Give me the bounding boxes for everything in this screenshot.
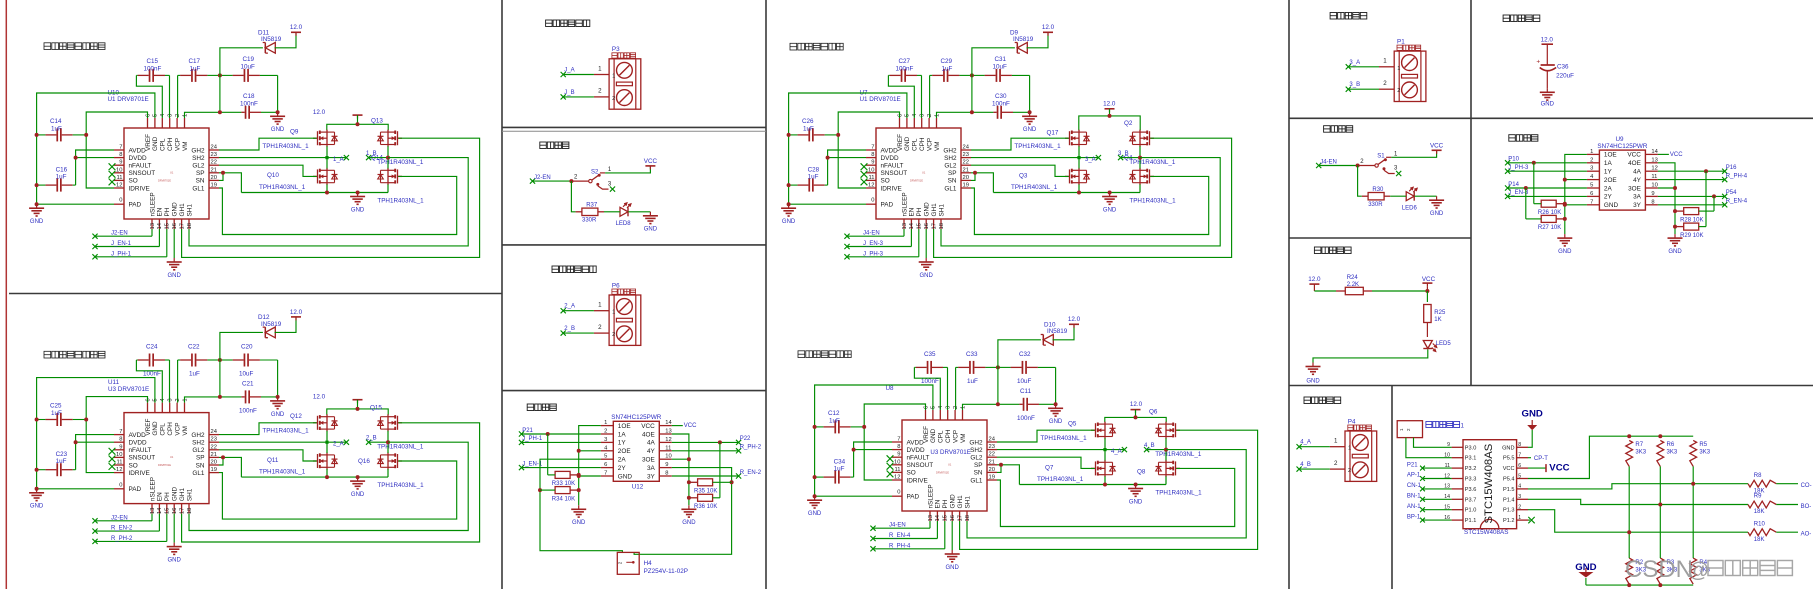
wire P5.4 to pullup rail xyxy=(1528,436,1693,478)
svg-text:2_A: 2_A xyxy=(333,442,344,448)
svg-text:R5: R5 xyxy=(1699,442,1707,448)
wire LED to GND xyxy=(1415,195,1437,197)
svg-text:13: 13 xyxy=(150,223,156,229)
svg-text:CPH: CPH xyxy=(919,137,926,151)
svg-text:U8: U8 xyxy=(886,385,895,392)
svg-text:13: 13 xyxy=(1651,157,1657,163)
junction switch input xyxy=(1356,164,1360,168)
capacitor C36 220uF polarized xyxy=(1536,58,1556,88)
pin 11 SO xyxy=(114,464,124,466)
svg-text:6: 6 xyxy=(145,114,151,117)
pin 23 SH2 xyxy=(961,157,971,159)
wire GND rail left xyxy=(37,378,155,489)
capacitor C26 1uF xyxy=(789,128,839,141)
ground top (VM caps) xyxy=(270,112,285,124)
svg-text:R_EN-2: R_EN-2 xyxy=(111,526,133,532)
wire 2OE to GND vertical xyxy=(579,450,601,452)
wire pin8 GND up to symbol xyxy=(1528,430,1532,447)
svg-text:C21: C21 xyxy=(242,380,254,387)
junction bridge power xyxy=(356,122,360,126)
wire left phase xyxy=(326,146,328,168)
svg-text:20: 20 xyxy=(963,175,969,181)
ground (buffer left) xyxy=(1557,234,1572,246)
pin 3 1Y xyxy=(601,441,614,443)
ground (buffer right) xyxy=(1668,234,1683,246)
pin 12 IDRIVE xyxy=(114,472,124,474)
svg-text:nSLEEP: nSLEEP xyxy=(149,477,156,501)
svg-text:4OE: 4OE xyxy=(1628,160,1641,167)
transistor Q10 (low side left) xyxy=(313,168,338,185)
pin 17 GH1 xyxy=(959,511,961,521)
wire GL2 to low-left gate xyxy=(219,450,317,461)
pin 12 4A xyxy=(1645,170,1658,172)
pin 4 CPL xyxy=(161,118,163,128)
wire GL1 loop to low-right gate xyxy=(971,176,1209,234)
svg-text:GH2: GH2 xyxy=(943,147,957,154)
pin 2 wire net 4_B xyxy=(1330,468,1345,470)
svg-text:GL1: GL1 xyxy=(192,185,205,192)
wire C15 left to CPL pin4 xyxy=(136,360,162,403)
svg-text:STC15W408AS: STC15W408AS xyxy=(1483,443,1495,523)
wire GH1 loop to high-right gate xyxy=(182,423,480,542)
svg-text:R34 10K: R34 10K xyxy=(552,496,575,502)
pin 15 PH xyxy=(918,219,920,229)
svg-text:330R: 330R xyxy=(1368,202,1383,208)
svg-text:SN74HC125PWR: SN74HC125PWR xyxy=(611,414,661,421)
svg-text:C17: C17 xyxy=(189,58,201,65)
svg-text:2: 2 xyxy=(1383,80,1387,87)
svg-text:8: 8 xyxy=(897,444,900,450)
net label VCC xyxy=(1658,153,1669,155)
svg-text:11: 11 xyxy=(116,460,122,466)
wire VM pin1 to rail xyxy=(963,404,1020,410)
svg-text:R7: R7 xyxy=(1635,442,1643,448)
pin 14 VCC xyxy=(1645,153,1658,155)
pin 9 nFAULT xyxy=(114,164,124,166)
svg-text:AVDD: AVDD xyxy=(907,439,925,446)
svg-text:100nF: 100nF xyxy=(144,66,162,73)
svg-text:CPL: CPL xyxy=(938,430,945,443)
svg-text:1A: 1A xyxy=(1604,160,1613,167)
pin 8 3Y xyxy=(659,475,672,477)
svg-text:U1: U1 xyxy=(170,171,174,175)
svg-text:SO: SO xyxy=(129,462,138,469)
junction C17/C19/D/VM xyxy=(218,358,222,362)
junction 3A pull xyxy=(1712,194,1716,198)
svg-text:10uF: 10uF xyxy=(239,371,254,378)
svg-text:5: 5 xyxy=(604,454,607,460)
pin 6 2Y xyxy=(601,467,614,469)
pin 13 4OE xyxy=(1645,162,1658,164)
svg-text:100nF: 100nF xyxy=(992,101,1010,108)
junction 2A pull xyxy=(1524,186,1528,190)
svg-text:14: 14 xyxy=(157,507,163,514)
svg-text:1OE: 1OE xyxy=(1604,152,1617,159)
wire C17 left to VCP pin2 xyxy=(177,360,179,403)
pin 8 DVDD xyxy=(892,449,902,451)
svg-text:20: 20 xyxy=(989,467,995,473)
svg-text:1: 1 xyxy=(598,65,602,72)
capacitor C28 1uF xyxy=(789,179,828,192)
pin 8 DVDD xyxy=(114,441,124,443)
junction VCC/R25 xyxy=(1425,289,1429,293)
wire C19 right down to C18 right / GND xyxy=(1055,367,1057,404)
power 12.0 (diode) xyxy=(1069,324,1079,328)
svg-text:IDRIVE: IDRIVE xyxy=(881,185,902,192)
svg-text:6: 6 xyxy=(145,398,151,401)
svg-text:P5.4: P5.4 xyxy=(1503,477,1515,483)
svg-text:3_A: 3_A xyxy=(1349,60,1360,66)
svg-text:U3 DRV8701E: U3 DRV8701E xyxy=(930,449,970,456)
svg-text:4OE: 4OE xyxy=(642,431,655,438)
svg-text:6: 6 xyxy=(1518,463,1521,469)
junction R2 right on GND vertical xyxy=(577,488,581,492)
junction C18 right / GND xyxy=(276,110,280,114)
svg-text:15: 15 xyxy=(165,223,171,229)
svg-text:U1: U1 xyxy=(922,171,926,175)
wire GND rail left xyxy=(37,93,155,204)
svg-text:P21: P21 xyxy=(522,428,533,434)
svg-text:AVDD: AVDD xyxy=(129,147,147,154)
resistor R4 3K3 xyxy=(1690,558,1697,584)
junction switch input xyxy=(569,179,573,183)
svg-text:J_B: J_B xyxy=(564,90,574,96)
wire GH2 to high-left gate xyxy=(997,430,1095,442)
svg-text:R25: R25 xyxy=(1434,310,1446,316)
svg-text:GL2: GL2 xyxy=(192,447,205,454)
junction C16 left on GND rail xyxy=(813,475,817,479)
transistor Q5 (high side left) xyxy=(1091,422,1116,439)
wire R24 to VCC node xyxy=(1372,290,1427,292)
svg-text:4_A: 4_A xyxy=(1300,440,1311,446)
wire GH2 to high-left gate xyxy=(219,138,317,150)
net label R_EN-4 (3Y) xyxy=(1658,204,1725,206)
wire VM pin1 to rail xyxy=(937,112,994,118)
wire GL2 to low-left gate xyxy=(997,457,1095,468)
junction AVDD/DVDD/C16 xyxy=(74,440,78,444)
svg-text:8: 8 xyxy=(119,152,122,158)
pin 12 P3.3 xyxy=(1452,478,1463,480)
svg-text:3: 3 xyxy=(946,406,952,409)
ground (indicator) xyxy=(1306,363,1321,375)
svg-text:CPH: CPH xyxy=(167,137,174,151)
svg-text:3_B: 3_B xyxy=(1118,151,1129,157)
pin 7 P5.5 xyxy=(1517,457,1528,459)
pin 6 2Y xyxy=(1587,195,1600,197)
svg-text:VM: VM xyxy=(182,426,189,436)
ground below IC xyxy=(919,258,934,270)
svg-text:16: 16 xyxy=(172,508,178,514)
wire SN joins SP xyxy=(219,457,223,465)
wire R25 to LED5 xyxy=(1426,323,1428,338)
wire AVDD to C16 right xyxy=(76,435,114,470)
pin 2 VCP xyxy=(176,403,178,413)
pin 20 SN xyxy=(987,471,997,473)
junction C17/C19/D/VM xyxy=(218,73,222,77)
svg-text:VREF: VREF xyxy=(923,426,930,443)
watermark CSDN xyxy=(1625,556,1709,583)
svg-text:VREF: VREF xyxy=(897,134,904,151)
pin 2 wire net 2_B xyxy=(594,332,609,334)
pin 9 nFAULT xyxy=(114,449,124,451)
pin 10 SNSOUT xyxy=(114,456,124,458)
pin 13 P3.6 xyxy=(1452,488,1463,490)
pin 12 IDRIVE xyxy=(114,187,124,189)
net label P10 (1A) xyxy=(1505,160,1510,165)
svg-text:nFAULT: nFAULT xyxy=(129,447,152,454)
svg-text:1: 1 xyxy=(1590,149,1593,155)
svg-text:3OE: 3OE xyxy=(642,457,655,464)
pin 18 SH1 xyxy=(966,511,968,521)
junction rail gnd tap xyxy=(356,475,360,479)
svg-text:VCC: VCC xyxy=(644,158,658,165)
svg-text:7: 7 xyxy=(871,145,874,151)
svg-text:5: 5 xyxy=(931,406,937,409)
diode D12 IN5819 xyxy=(263,327,276,338)
transistor Q14 (low side right) xyxy=(378,168,403,185)
pin 3 CPH xyxy=(169,118,171,128)
wire GL1 loop to low-right gate xyxy=(219,461,457,519)
svg-text:CP-T: CP-T xyxy=(1534,456,1548,462)
ground top (VM caps) xyxy=(270,397,285,409)
wire GND rail left xyxy=(815,385,933,496)
svg-text:1uF: 1uF xyxy=(808,174,819,181)
svg-text:1uF: 1uF xyxy=(190,66,201,73)
junction R1 right on GND vertical xyxy=(577,473,581,477)
junction 4A pull xyxy=(718,440,722,444)
node 2_B xyxy=(369,441,388,443)
svg-text:C35: C35 xyxy=(924,351,936,358)
pin 13 nSLEEP xyxy=(903,219,905,229)
wire pin16 GND down xyxy=(951,521,953,550)
section title 上右电机驱动电路 xyxy=(44,351,105,358)
power VCC (indicator) xyxy=(1422,283,1432,287)
connector P3 xyxy=(609,59,641,109)
wire C15 left to CPL pin4 xyxy=(136,75,162,118)
svg-text:2: 2 xyxy=(612,96,615,102)
wire C17 left to VCP pin2 xyxy=(177,75,179,118)
transistor Q12 (high side left) xyxy=(313,414,338,431)
pin 5 GND xyxy=(906,118,908,128)
ground below IC xyxy=(167,543,182,555)
svg-text:10uF: 10uF xyxy=(241,64,256,71)
svg-text:R37: R37 xyxy=(586,203,598,209)
pin 1 wire net 3_A xyxy=(1379,66,1394,68)
svg-text:R_PH-2: R_PH-2 xyxy=(111,536,133,542)
svg-text:18: 18 xyxy=(187,508,193,514)
section divider vertical x502 xyxy=(501,0,503,589)
svg-text:2: 2 xyxy=(612,332,615,338)
net label R_PH-2 (4Y) xyxy=(672,450,739,452)
svg-text:GND: GND xyxy=(1668,249,1682,255)
svg-text:1: 1 xyxy=(1518,515,1521,521)
svg-text:4_A: 4_A xyxy=(1111,449,1122,455)
wire C15 right to CPH pin3 xyxy=(169,75,171,118)
wire switch pin1 to VCC xyxy=(1391,150,1436,157)
ground bridge xyxy=(350,477,365,489)
svg-text:17: 17 xyxy=(931,223,937,229)
svg-text:16: 16 xyxy=(172,223,178,229)
svg-text:H4: H4 xyxy=(644,560,653,567)
junction GND rail / PAD xyxy=(813,494,817,498)
power 12.0 (diode) xyxy=(291,32,301,36)
node 3_A xyxy=(1079,157,1098,159)
svg-text:DRV8701E: DRV8701E xyxy=(936,471,949,475)
svg-text:19: 19 xyxy=(211,183,217,189)
svg-text:2: 2 xyxy=(604,429,607,435)
svg-text:C34: C34 xyxy=(834,459,846,466)
svg-text:5: 5 xyxy=(905,114,911,117)
pin 5 GND xyxy=(154,118,156,128)
svg-text:2_A: 2_A xyxy=(564,304,575,310)
svg-text:P5.5: P5.5 xyxy=(1503,456,1515,462)
net label P54 (3A) xyxy=(1658,195,1725,197)
section divider horizontal right y118.3 xyxy=(1289,117,1813,119)
resistor R28 10K xyxy=(1684,208,1699,215)
svg-text:SNSOUT: SNSOUT xyxy=(129,455,156,462)
svg-text:C15: C15 xyxy=(147,58,159,65)
junction bottom rail R2 xyxy=(1627,583,1631,587)
svg-text:14: 14 xyxy=(665,420,672,426)
svg-text:100nF: 100nF xyxy=(896,66,914,73)
wire AVDD to C16 right xyxy=(76,150,114,185)
diode D10 IN5819 xyxy=(1041,334,1054,345)
svg-text:J_A: J_A xyxy=(564,68,574,74)
svg-text:PAD: PAD xyxy=(129,202,142,209)
pin 2 VCP xyxy=(176,118,178,128)
svg-text:1: 1 xyxy=(604,420,607,426)
section title 上左电机驱动电路 xyxy=(44,43,105,50)
junction C14 left on GND rail xyxy=(35,418,39,422)
svg-text:1uF: 1uF xyxy=(803,126,814,133)
junction C18 right / GND xyxy=(1054,402,1058,406)
svg-text:12.0: 12.0 xyxy=(290,24,303,31)
wire pin16 GND down xyxy=(173,514,175,543)
svg-text:10: 10 xyxy=(665,454,671,460)
pin 14 EN xyxy=(158,504,160,514)
wire bridge power xyxy=(1109,109,1111,116)
op-amp/driver IC U8 U3 DRV8701E body xyxy=(902,420,987,511)
ground left xyxy=(807,496,822,508)
wire junction down to VM rail xyxy=(997,367,999,404)
svg-text:24: 24 xyxy=(211,145,218,151)
wire SH2 to phase A xyxy=(971,157,1079,159)
svg-text:CPL: CPL xyxy=(160,138,167,151)
svg-text:TPH1R403NL_1: TPH1R403NL_1 xyxy=(377,198,424,205)
wire GL1 loop to low-right gate xyxy=(219,176,457,234)
svg-text:P3.7: P3.7 xyxy=(1465,497,1477,503)
svg-text:GND: GND xyxy=(152,136,159,151)
svg-text:VCC: VCC xyxy=(1670,152,1683,158)
wire diode anode to 12.0 xyxy=(1027,32,1049,48)
svg-text:C16: C16 xyxy=(56,167,68,174)
svg-text:C27: C27 xyxy=(899,58,911,65)
wire bottom rail to GND xyxy=(1078,184,1080,192)
svg-text:17: 17 xyxy=(179,223,185,229)
svg-text:11: 11 xyxy=(894,467,900,473)
svg-text:C12: C12 xyxy=(828,410,840,417)
wire SN joins SP xyxy=(219,173,223,181)
svg-text:9: 9 xyxy=(897,452,900,458)
svg-text:U1: U1 xyxy=(170,455,174,459)
svg-text:7: 7 xyxy=(1590,199,1593,205)
label 固件下载口1 xyxy=(1426,422,1460,428)
pin 15 PH xyxy=(166,219,168,229)
power 12.0 (bridge) xyxy=(1131,410,1141,414)
svg-text:100nF: 100nF xyxy=(921,378,939,385)
junction VM rail at x219.9 xyxy=(970,110,974,114)
pin 20 SN xyxy=(209,179,219,181)
node 1_B xyxy=(369,157,388,159)
capacitor C25 1uF xyxy=(37,413,87,426)
net label R_PH-4 xyxy=(873,548,945,550)
pin 5 2A xyxy=(601,458,614,460)
pin 2 wire net J_B xyxy=(594,96,609,98)
junction AVDD/DVDD/C16 xyxy=(74,156,78,160)
svg-text:10: 10 xyxy=(116,452,122,458)
junction R5 node xyxy=(1691,482,1695,486)
svg-text:1uF: 1uF xyxy=(56,458,67,465)
svg-text:11: 11 xyxy=(665,445,671,451)
svg-text:SN74HC125PWR: SN74HC125PWR xyxy=(1597,143,1647,150)
svg-text:3_B: 3_B xyxy=(1349,82,1360,88)
svg-text:4A: 4A xyxy=(647,440,656,447)
svg-text:VCC: VCC xyxy=(1503,466,1515,472)
diode D9 IN5819 xyxy=(1015,42,1028,53)
svg-text:GND: GND xyxy=(572,520,586,526)
svg-text:U1 DRV8701E: U1 DRV8701E xyxy=(860,96,901,103)
junction at C14 right xyxy=(84,418,88,422)
svg-text:16: 16 xyxy=(924,223,930,229)
svg-text:DRV8701E: DRV8701E xyxy=(910,179,923,183)
svg-text:VREF: VREF xyxy=(145,418,152,435)
svg-text:SH2: SH2 xyxy=(192,440,205,447)
wire PAD to GND xyxy=(789,203,866,205)
wire 1OE to GND vertical xyxy=(579,426,601,506)
wire C19 right down to C18 right / GND xyxy=(277,360,279,397)
wire download conn pin1 to P3.1 xyxy=(1406,438,1452,458)
svg-text:12.0: 12.0 xyxy=(1130,401,1143,408)
junction rail left mosfet xyxy=(325,191,329,195)
net label R_PH-4 (4Y) xyxy=(1658,179,1725,181)
no-connect marks pins 9,10,11 xyxy=(887,455,894,462)
section title 缓冲电路 xyxy=(1509,135,1538,142)
svg-text:TPH1R403NL_1: TPH1R403NL_1 xyxy=(1040,435,1087,442)
wire bottom rail to GND xyxy=(326,469,328,477)
svg-text:12: 12 xyxy=(116,183,122,189)
junction R6 node xyxy=(1658,503,1662,507)
svg-text:U1 DRV8701E: U1 DRV8701E xyxy=(108,96,149,103)
transistor Q17 (high side left) xyxy=(1065,130,1090,147)
wire GH2 to high-left gate xyxy=(219,423,317,435)
svg-text:S2: S2 xyxy=(591,169,599,175)
svg-text:9: 9 xyxy=(119,160,122,166)
pin 13 nSLEEP xyxy=(151,504,153,514)
svg-text:DVDD: DVDD xyxy=(129,155,147,162)
svg-text:J_EN-3: J_EN-3 xyxy=(863,241,884,247)
svg-text:R_EN-4: R_EN-4 xyxy=(889,533,911,539)
svg-text:C11: C11 xyxy=(1020,388,1032,395)
pin 19 GL1 xyxy=(209,472,219,474)
pin 2 VCP xyxy=(928,118,930,128)
junction rail R6 xyxy=(1658,434,1662,438)
wire C17 left to VCP pin2 xyxy=(929,75,931,118)
wire 3OE junction xyxy=(672,458,689,460)
svg-text:15: 15 xyxy=(943,515,949,521)
svg-text:C18: C18 xyxy=(243,93,255,100)
junction bottom rail R3 xyxy=(1658,583,1662,587)
svg-text:GND: GND xyxy=(172,487,179,502)
